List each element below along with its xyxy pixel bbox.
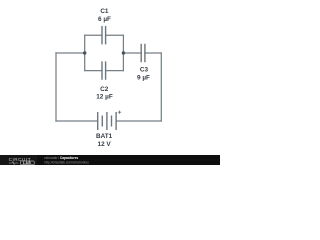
logo wave xyxy=(9,162,19,165)
svg-text:http://circuitlab.com/c/redrvd: http://circuitlab.com/c/redrvdros xyxy=(45,160,90,164)
node: junction dot left xyxy=(83,51,86,54)
wire: rail from box to C3 xyxy=(123,52,141,54)
svg-text:LAB: LAB xyxy=(23,161,31,165)
wire: box top edge right of C1 xyxy=(106,34,124,36)
svg-text:C1: C1 xyxy=(100,8,109,15)
wire: C3 to right corner xyxy=(145,52,161,54)
wire: left vertical xyxy=(55,53,57,121)
svg-text:C2: C2 xyxy=(100,86,109,93)
capacitor C3 plates xyxy=(141,44,145,62)
wire: bottom left to battery xyxy=(56,120,98,122)
wire: parallel box right edge xyxy=(122,35,124,70)
wire: box bottom edge right of C2 xyxy=(106,70,124,72)
wire: mid rail left of parallel box xyxy=(56,52,85,54)
wire: battery to bottom-right corner xyxy=(116,120,161,122)
svg-text:6 µF: 6 µF xyxy=(98,16,111,23)
battery BAT1 plates xyxy=(97,112,99,130)
logo LAB box xyxy=(21,161,35,165)
footer logo panel xyxy=(0,155,37,165)
svg-text:12 V: 12 V xyxy=(98,141,112,148)
wire: box top edge left of C1 xyxy=(85,34,102,36)
capacitor C2 plates xyxy=(102,61,106,79)
svg-text:9 µF: 9 µF xyxy=(137,74,150,81)
node: junction dot right xyxy=(122,51,125,54)
svg-text:BAT1: BAT1 xyxy=(96,133,113,140)
footer bar xyxy=(0,155,220,165)
wire: box bottom edge left of C2 xyxy=(85,70,102,72)
svg-text:12 µF: 12 µF xyxy=(96,93,113,100)
capacitor C1 plates xyxy=(102,26,106,44)
battery plus sign xyxy=(118,111,121,114)
svg-text:C3: C3 xyxy=(140,67,149,74)
wire: parallel box left edge xyxy=(84,35,86,70)
wire: right vertical xyxy=(160,53,162,121)
